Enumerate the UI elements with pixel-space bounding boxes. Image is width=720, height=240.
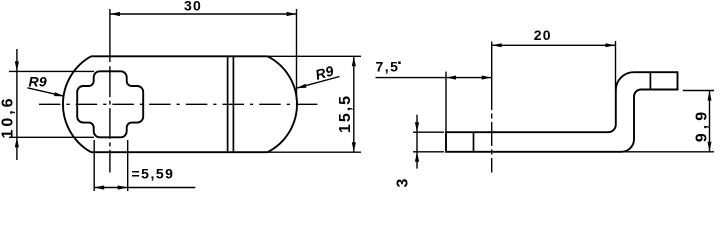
dimension 20: left arrow xyxy=(492,43,502,47)
dimension 30: dimension line xyxy=(110,13,297,15)
dimension 30: left arrow xyxy=(110,12,120,16)
dimension 9,9: bottom extension line (extends bar bottom edge) xyxy=(622,151,715,153)
dimension 7,5: left arrow xyxy=(446,76,456,80)
dimension 10,6: bottom extension line xyxy=(9,136,94,138)
dimension 15,5: bottom extension line (extends cam bottom edge) xyxy=(268,151,362,153)
dimension =5,59: dimension line xyxy=(94,187,195,189)
cam top edge xyxy=(91,55,268,57)
vertical centerline of hole xyxy=(109,66,111,172)
dimension 15,5: top extension line (extends cam top edge) xyxy=(268,55,362,57)
bend tangent edge line in upper tip xyxy=(649,72,651,89)
side view hole centerline xyxy=(491,42,493,173)
dimension 3: bottom arrow (outside, points up) xyxy=(415,152,419,162)
cam right end arc R9 xyxy=(268,56,298,152)
dimension 3: dimension line xyxy=(416,115,418,169)
dimension 10,6: dimension line xyxy=(16,49,18,160)
degree tick after 7,5 xyxy=(398,62,401,65)
dimension 10,6: top extension line xyxy=(9,70,94,72)
dimension 20: right extension line xyxy=(615,41,617,90)
dimension =5,59: left arrow xyxy=(94,185,104,189)
bend line 1 xyxy=(227,56,229,152)
horizontal centerline xyxy=(39,103,318,105)
dimension 3: bottom extension line xyxy=(413,151,444,153)
bend line 2 xyxy=(232,56,234,152)
dimension 30: right extension line xyxy=(296,9,298,100)
dimension 20: dimension line xyxy=(492,44,616,46)
dimension =5,59: right arrow xyxy=(118,185,128,189)
left R9 leader arrow xyxy=(54,92,64,96)
dimension =5,59: right extension line xyxy=(127,140,129,191)
svg-text:=5,59: =5,59 xyxy=(132,166,175,182)
svg-text:3: 3 xyxy=(395,177,412,188)
dimension 3: top arrow (outside, points down) xyxy=(415,122,419,132)
svg-text:9,9: 9,9 xyxy=(694,108,711,142)
dimension 10,6: bottom arrow (outside, points up) xyxy=(15,137,19,147)
right R9 leader arrow xyxy=(296,84,306,89)
dimension 9,9: bottom arrow xyxy=(708,142,712,152)
dimension 10,6: top arrow (outside, points down) xyxy=(15,61,19,71)
svg-text:20: 20 xyxy=(534,27,552,43)
side view profile outline xyxy=(446,72,678,152)
cross-shaped spindle hole xyxy=(77,71,143,137)
dimension 15,5: top arrow xyxy=(352,56,356,66)
cam left end arc R9 xyxy=(63,56,91,152)
dimension 15,5: dimension line xyxy=(353,56,355,152)
dimension 9,9: top arrow xyxy=(708,91,712,101)
dimension 9,9: top extension line xyxy=(683,90,714,92)
svg-text:30: 30 xyxy=(184,0,202,14)
dimension 30: left extension line xyxy=(109,9,111,62)
tangent edge line of left arc in side view xyxy=(473,132,475,152)
dimension 30: right arrow xyxy=(287,12,297,16)
dimension 15,5: bottom arrow xyxy=(352,142,356,152)
dimension =5,59: left extension line xyxy=(93,140,95,191)
dimension 20: right arrow xyxy=(606,43,616,47)
svg-text:10,6: 10,6 xyxy=(0,95,16,138)
dimension 7,5: right arrow xyxy=(482,76,492,80)
dimension 7,5: left extension line (bar left end extended) xyxy=(445,72,447,133)
leader line for right R9 xyxy=(297,77,339,88)
leader line for left R9 xyxy=(27,88,63,96)
cam bottom edge xyxy=(91,151,268,153)
svg-text:15,5: 15,5 xyxy=(337,94,354,133)
svg-text:7,5: 7,5 xyxy=(376,59,400,75)
svg-text:R9: R9 xyxy=(29,74,47,90)
dimension 7,5: dimension line xyxy=(376,77,492,79)
dimension 9,9: dimension line xyxy=(709,91,711,152)
dimension 3: top extension line xyxy=(413,131,444,133)
